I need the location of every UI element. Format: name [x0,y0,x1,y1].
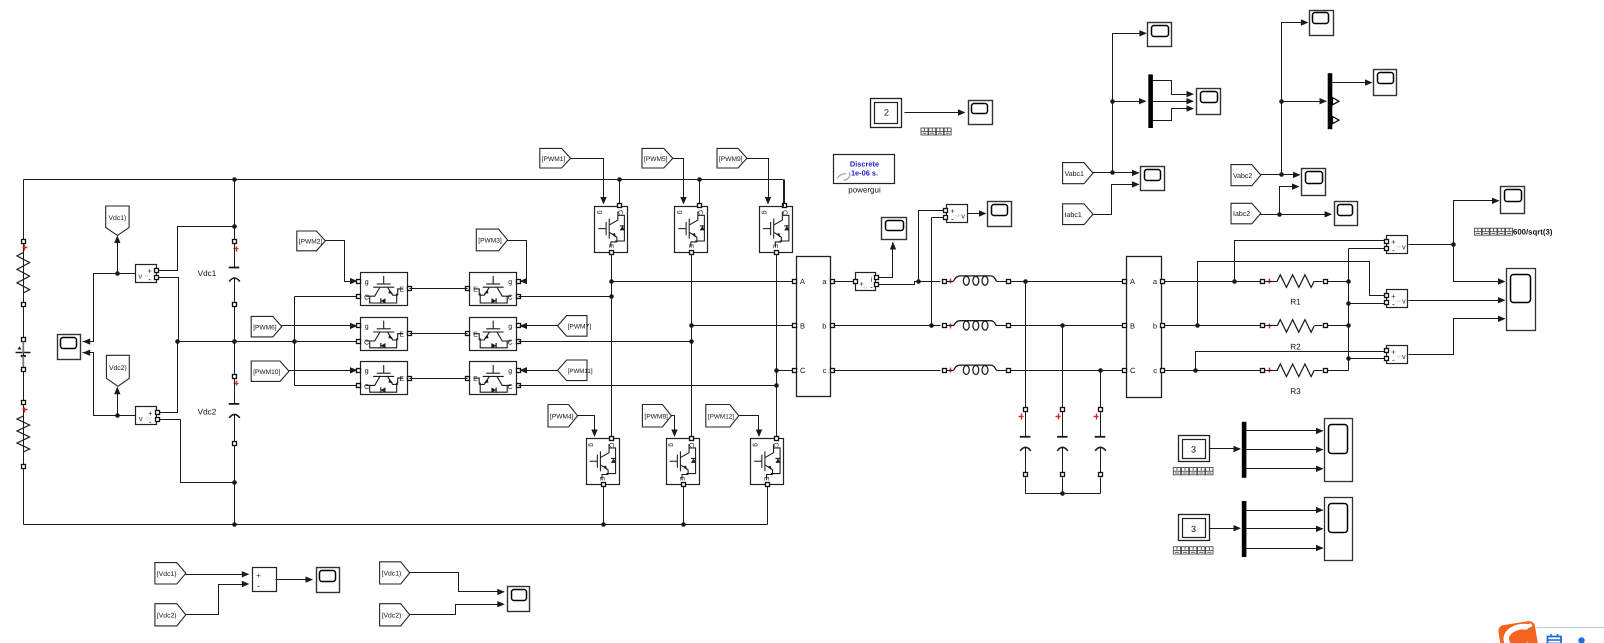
svg-text:b: b [822,322,826,331]
svg-text:R2: R2 [1290,342,1301,351]
svg-text:C: C [800,366,806,375]
svg-text:B: B [1130,322,1135,331]
svg-text:[Vdc1): [Vdc1) [157,571,177,578]
svg-text:E: E [473,376,478,383]
svg-text:g: g [677,210,684,214]
svg-text:R1: R1 [1290,298,1301,307]
svg-text:v: v [139,414,143,423]
svg-text:Vabc1: Vabc1 [1065,170,1084,178]
svg-text:E: E [598,477,605,482]
svg-text:b: b [1153,322,1157,331]
svg-text:C: C [608,443,615,448]
svg-text:g: g [365,279,369,286]
svg-text:E: E [678,477,685,482]
svg-text:[PWM6]: [PWM6] [253,324,277,331]
svg-text:E: E [473,287,478,294]
svg-text:C: C [364,339,369,346]
svg-text:Discrete: Discrete [850,160,879,169]
svg-text:-: - [148,274,151,284]
svg-text:Vdc1: Vdc1 [198,269,217,278]
svg-text:g: g [365,324,369,331]
svg-text:[PWM4]: [PWM4] [550,413,574,420]
svg-text:E: E [763,477,770,482]
svg-text:[PWM3]: [PWM3] [478,238,502,245]
svg-text:-: - [870,283,873,292]
svg-text:C: C [364,295,369,302]
svg-text:-: - [1392,245,1395,255]
svg-text:c: c [823,366,827,375]
svg-text:[PWM5]: [PWM5] [644,156,668,163]
svg-text:[Vdc2): [Vdc2) [157,612,177,619]
svg-text:-o-: -o- [1395,298,1401,304]
svg-text:c: c [1153,366,1157,375]
svg-text:Iabc2: Iabc2 [1233,210,1250,218]
svg-text:E: E [772,244,779,249]
svg-text:g: g [761,210,768,214]
svg-text:[PWM10]: [PWM10] [253,369,280,376]
svg-text:Vdc2: Vdc2 [198,408,217,417]
svg-text:[PWM7]: [PWM7] [568,324,592,331]
svg-text:1e-06 s.: 1e-06 s. [851,169,878,178]
svg-text:C: C [508,339,513,346]
svg-text:+: + [256,571,261,580]
svg-text:C: C [772,443,779,448]
svg-text:g: g [752,443,759,447]
svg-text:-: - [1392,355,1395,365]
svg-text:E: E [399,332,404,339]
svg-text:g: g [508,279,512,286]
svg-text:[Vdc1): [Vdc1) [382,571,402,578]
svg-text:v: v [1402,297,1406,306]
svg-text:[PWM9]: [PWM9] [719,156,743,163]
svg-text:[PWM8]: [PWM8] [644,413,668,420]
svg-text:-: - [1392,299,1395,309]
svg-text:C: C [364,384,369,391]
svg-text:A: A [800,277,805,286]
svg-text:v: v [961,211,965,220]
svg-text:C: C [781,210,788,215]
svg-text:Vdc1): Vdc1) [109,215,127,222]
svg-text:E: E [399,376,404,383]
svg-text:[Vdc2): [Vdc2) [382,612,402,619]
svg-text:v: v [138,271,142,280]
svg-text:E: E [687,244,694,249]
svg-text:2: 2 [884,108,889,118]
svg-text:-o-: -o- [1395,244,1401,250]
svg-text:g: g [668,443,675,447]
svg-text:C: C [1130,366,1136,375]
svg-text:Vabc2: Vabc2 [1233,172,1252,180]
svg-text:v: v [1402,352,1406,361]
svg-text:g: g [588,443,595,447]
svg-text:[PWM1]: [PWM1] [542,156,566,163]
svg-text:E: E [607,244,614,249]
svg-text:g: g [508,324,512,331]
svg-text:Iabc1: Iabc1 [1065,211,1082,219]
svg-text:E: E [399,287,404,294]
svg-text:C: C [508,295,513,302]
svg-text:powergui: powergui [848,186,881,195]
svg-text:[PWM11]: [PWM11] [568,368,593,375]
svg-text:600/sqrt(3): 600/sqrt(3) [1513,228,1553,237]
svg-text:-o-: -o- [862,285,868,291]
svg-text:-: - [951,214,954,224]
svg-text:-: - [149,416,152,426]
svg-text:R3: R3 [1290,387,1301,396]
svg-text:-o-: -o- [955,213,961,219]
svg-text:g: g [597,210,604,214]
svg-text:-: - [257,580,260,590]
svg-text:E: E [473,332,478,339]
svg-text:g: g [365,368,369,375]
svg-text:C: C [508,384,513,391]
svg-text:3: 3 [1191,524,1196,534]
svg-text:3: 3 [1191,445,1196,455]
svg-text:[PWM2]: [PWM2] [299,239,323,246]
svg-text:A: A [1130,277,1135,286]
svg-text:g: g [508,368,512,375]
svg-text:Vdc2): Vdc2) [109,365,127,372]
svg-text:C: C [697,210,704,215]
svg-text:C: C [688,443,695,448]
svg-text:-o-: -o- [1395,354,1401,360]
svg-text:[PWM12]: [PWM12] [708,413,735,420]
svg-text:C: C [617,210,624,215]
svg-text:v: v [1402,242,1406,251]
svg-text:B: B [800,322,805,331]
